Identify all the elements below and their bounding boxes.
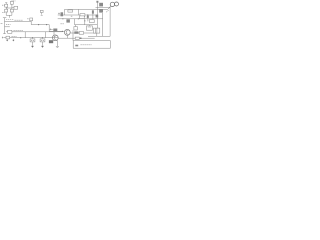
- node top tick left column: [5, 2, 7, 4]
- wire TP1 stub: [41, 13, 43, 15]
- wire supply rail upper: [6, 31, 63, 33]
- wire vertical at x73: [72, 30, 74, 40]
- wire bus1: [58, 14, 98, 16]
- wire vertical x87.9: [87, 14, 89, 21]
- connector jack J2: [115, 2, 119, 6]
- junction node F: [80, 37, 82, 39]
- wire tie bottom top-left: [6, 14, 12, 16]
- label value on Q1 output: [74, 31, 78, 33]
- wire riser x74.5: [74, 19, 76, 25]
- resistor R7: [8, 30, 12, 33]
- label value Q2: [49, 40, 53, 43]
- wire input net: [5, 21, 32, 23]
- resistor R10: [68, 10, 73, 12]
- capacitor C7 dark: [96, 15, 99, 18]
- label plus Q1 base: [50, 28, 52, 30]
- label text inside module: [81, 44, 92, 46]
- wire supply rail lower: [4, 37, 58, 39]
- wire horizontal y24.7: [75, 24, 98, 26]
- resistor R14: [74, 27, 77, 30]
- wire C3 to ground: [42, 42, 44, 46]
- resistor R6: [79, 32, 83, 35]
- junction node B: [46, 24, 47, 25]
- block PCB module box: [73, 41, 110, 49]
- label text left of bus: [1, 22, 3, 24]
- capacitor C1: [30, 18, 33, 21]
- wire C2 to ground: [32, 42, 34, 46]
- node plus terminal: [2, 37, 4, 39]
- junction node A: [38, 24, 39, 25]
- resistor R2: [5, 4, 8, 7]
- wire riser x64.5: [64, 9, 66, 15]
- wire mid bus: [31, 24, 49, 26]
- label text inside C3: [41, 39, 44, 41]
- resistor R1: [10, 1, 13, 4]
- wire horizontal y36.3: [88, 35, 110, 37]
- wire Q1 base: [49, 30, 64, 32]
- transistor Q1: [64, 29, 70, 35]
- resistor R4: [10, 9, 13, 12]
- label text near Q1 base: [50, 28, 53, 30]
- wire branch stub: [5, 26, 10, 28]
- wire riser x84.8 with dot: [84, 19, 86, 25]
- capacitor C2: [30, 39, 35, 42]
- ground C3: [41, 46, 44, 48]
- label plus: [58, 13, 60, 15]
- wire Q2 output row: [58, 37, 94, 39]
- label text under bus2 left: [61, 23, 65, 25]
- resistor R8: [6, 36, 10, 39]
- wire C5 down: [92, 14, 94, 19]
- resistor R3: [5, 9, 8, 12]
- connector jack J1: [110, 2, 114, 6]
- wire bus2: [58, 18, 103, 20]
- wire diagonal to jack: [108, 6, 111, 9]
- label inside module: [75, 45, 78, 47]
- wire Q1 output: [70, 32, 97, 34]
- label text above R7: [14, 29, 24, 31]
- junction node D: [32, 37, 33, 38]
- ground stub 2: [12, 39, 14, 40]
- junction node C: [20, 37, 21, 38]
- label text row1 left-mid: [6, 19, 14, 21]
- wire top rail: [65, 8, 108, 10]
- node tick bus bottom: [3, 33, 6, 35]
- junction node I: [87, 15, 88, 16]
- wire riser x78.4: [77, 9, 79, 15]
- resistor R9: [75, 37, 79, 39]
- capacitor small x87: [87, 16, 89, 18]
- wire stub below tie: [8, 15, 10, 17]
- wire stub down x75.6: [75, 25, 77, 27]
- wire vertical right column top-left bias network: [11, 1, 13, 16]
- resistor R13: [90, 20, 95, 23]
- ground stub 1: [6, 39, 8, 40]
- transistor Q2: [52, 35, 58, 41]
- wire Q2 collector: [53, 32, 55, 35]
- wire vertical x97.3: [96, 2, 98, 28]
- capacitor C5 dark plate: [92, 10, 94, 13]
- junction node G: [62, 18, 63, 19]
- node cap x97 top: [96, 1, 98, 3]
- wire tie mid top-left: [6, 7, 12, 9]
- wire vertical x110: [109, 6, 111, 36]
- resistor R5: [14, 6, 18, 9]
- wire horizontal y7.3: [96, 6, 111, 8]
- wire vertical tie x45.6: [45, 32, 47, 38]
- wire left vertical bus: [4, 18, 6, 34]
- electrolytic cap C9 dark: [99, 9, 103, 13]
- wire drop to Q1 base: [48, 25, 50, 32]
- junction TP1 tick: [41, 14, 43, 16]
- node tick bus top: [3, 17, 6, 19]
- wire stub down x89: [88, 25, 90, 26]
- wire jack drop diagonal: [108, 6, 111, 9]
- wire jog down: [30, 22, 32, 25]
- wire vertical tie x25: [24, 32, 26, 38]
- label text inside C2: [31, 39, 34, 41]
- label text near jack: [106, 10, 108, 12]
- capacitor C6 dark: [66, 19, 70, 22]
- capacitor C3: [40, 39, 45, 42]
- label value Q1: [53, 29, 57, 32]
- electrolytic cap C8 dark: [99, 3, 103, 7]
- wire Q2 emitter: [56, 40, 58, 46]
- node test point TP1: [40, 10, 43, 12]
- wire vertical x102.7: [102, 13, 104, 36]
- wire stub right from divider: [12, 7, 18, 9]
- capacitor C4 dark: [61, 12, 64, 16]
- wire vertical left column top-left bias network: [5, 3, 7, 16]
- relay K1 barred box: [93, 28, 99, 33]
- resistor R12: [80, 16, 85, 19]
- label text right of R8: [12, 36, 17, 38]
- wire Q1 emitter down: [66, 35, 68, 38]
- label text top-left: [2, 4, 4, 6]
- resistor R11: [80, 14, 85, 17]
- junction node E: [42, 37, 43, 38]
- label text left of C1: [27, 18, 29, 20]
- ground C2: [31, 46, 34, 48]
- resistor R15: [86, 26, 92, 30]
- label text row2 left-mid: [6, 23, 11, 25]
- junction node H: [78, 18, 79, 19]
- ground Q2: [56, 45, 59, 47]
